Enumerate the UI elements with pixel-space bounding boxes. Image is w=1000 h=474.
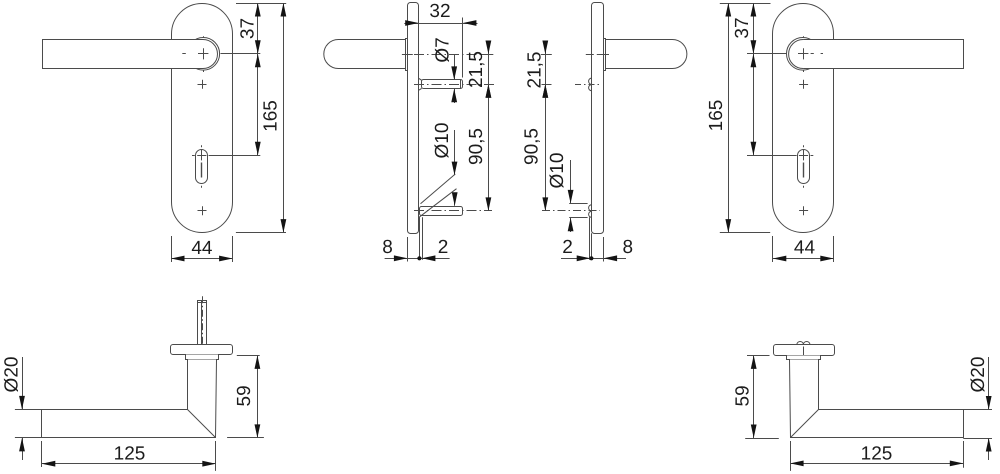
view5 dim line 125 xyxy=(42,461,216,467)
svg-text:8: 8 xyxy=(623,237,634,258)
view4 dim line 37 and keyhole segment xyxy=(751,3,757,155)
view2 label dia10 xyxy=(432,123,453,159)
view1 upper screw cross xyxy=(198,80,207,89)
view5 dim 59 extension lines xyxy=(227,356,264,438)
view3 dia10 leader and arrows xyxy=(568,160,574,232)
view6 dia20 leader and arrows xyxy=(986,357,992,460)
svg-text:Ø20: Ø20 xyxy=(968,357,989,393)
view4 dim line 165 xyxy=(725,3,731,233)
view5 dim line 59 xyxy=(255,355,261,438)
view5 rose slab xyxy=(171,345,233,355)
view2 lower stud (M10 socket) xyxy=(420,207,463,216)
svg-text:44: 44 xyxy=(794,237,816,258)
view3 dia10 hole edge lines xyxy=(569,204,587,218)
view2 2mm sub-plate lines xyxy=(420,217,423,259)
view3 dim line 2 and 8 xyxy=(561,255,626,261)
view4 backplate outline xyxy=(773,4,834,233)
view5 dia20 extension lines xyxy=(15,410,42,438)
view3 grip junction centerline dash xyxy=(598,54,609,56)
view4 upper screw cross xyxy=(799,80,808,89)
view4 keyhole slot xyxy=(798,150,810,184)
view3 label 8 xyxy=(623,237,634,258)
view4 lever end cap arc xyxy=(789,40,803,69)
view3 lower screw head bumps xyxy=(589,205,592,218)
svg-text:59: 59 xyxy=(732,385,753,406)
view2 screw diagonal upper xyxy=(421,174,456,204)
view2 label 90,5 xyxy=(466,128,487,165)
svg-text:2: 2 xyxy=(562,237,573,258)
view2 label 32 xyxy=(429,1,450,22)
view1 extension line plate bottom xyxy=(236,232,286,234)
view4 handle axis center mark xyxy=(798,48,808,59)
svg-text:165: 165 xyxy=(261,100,282,132)
view2 dim 21,5 extension at axis xyxy=(481,54,494,56)
svg-text:125: 125 xyxy=(861,444,893,465)
svg-text:Ø10: Ø10 xyxy=(547,153,568,189)
view4 extension line keyhole axis xyxy=(747,155,797,157)
view1 dim line 37 and keyhole segment xyxy=(255,3,261,155)
view6 center mark xyxy=(803,347,805,368)
view6 dia20 extension lines xyxy=(963,410,992,439)
view5 handle neck and grip outline xyxy=(42,360,217,438)
view1 handle axis center mark xyxy=(198,48,208,59)
view4 dim 44 extension lines xyxy=(773,236,834,262)
view1 rose outer circle xyxy=(187,38,220,71)
view4 label 37 xyxy=(732,17,753,38)
view1 dim line 165 xyxy=(281,3,287,233)
svg-text:165: 165 xyxy=(706,100,727,132)
view3 upper fixing centerline xyxy=(542,84,601,86)
view1 extension line handle axis xyxy=(221,53,261,55)
view4 dim line 44 xyxy=(773,256,834,262)
view6 screw head bumps xyxy=(797,341,810,344)
view2 screw diagonal lower xyxy=(419,189,457,218)
view6 miter joint line xyxy=(791,410,819,438)
svg-text:Ø20: Ø20 xyxy=(1,357,22,393)
view1 label 165 xyxy=(261,100,282,132)
view5 spindle shaft xyxy=(198,301,207,345)
view4 rose outer circle xyxy=(787,38,820,71)
svg-text:32: 32 xyxy=(429,1,450,22)
view6 dim 59 extension lines xyxy=(745,356,779,439)
view2 dim line 90,5 xyxy=(486,84,492,211)
view5 bearing band xyxy=(186,355,219,360)
view1 keyhole slot xyxy=(196,150,208,184)
view4 keyhole inner slot line xyxy=(803,163,805,178)
view5 spindle centerline xyxy=(202,296,204,366)
view6 bearing band xyxy=(787,356,821,360)
view5 label dia20 xyxy=(1,357,22,393)
view6 label 59 xyxy=(732,385,753,406)
view4 extension line plate bottom xyxy=(720,232,770,234)
svg-text:125: 125 xyxy=(114,444,146,465)
view6 rose slab xyxy=(774,345,835,356)
svg-text:37: 37 xyxy=(732,17,753,38)
view6 label 125 xyxy=(861,444,893,465)
view1 dim 44 extension lines xyxy=(172,236,233,262)
view2 dia7 leader and arrows xyxy=(451,55,457,103)
view5 dia20 leader and arrows xyxy=(19,357,25,460)
view3 dim line 90,5 xyxy=(542,84,548,211)
view4 keyhole center cross xyxy=(799,150,808,160)
view2 upper stud centerline xyxy=(414,84,495,86)
view2 upper stud (M6 bolt) xyxy=(419,78,463,90)
view2 grip side (stadium) xyxy=(324,40,406,69)
view5 label 59 xyxy=(234,385,255,406)
svg-text:Ø10: Ø10 xyxy=(432,123,453,159)
view1 lever bar xyxy=(43,40,204,69)
view2 label 8 xyxy=(382,237,393,258)
svg-text:21,5: 21,5 xyxy=(525,52,546,89)
view1 keyhole centerline dashes xyxy=(192,145,202,187)
view2 label 2 xyxy=(438,237,449,258)
view6 dim line 59 xyxy=(751,355,757,438)
view1 lower screw cross xyxy=(198,206,207,215)
view3 label 2 xyxy=(562,237,573,258)
view2 grip junction centerline dash xyxy=(402,54,413,56)
view2 grip collar xyxy=(406,39,408,71)
view3 label dia10 xyxy=(547,153,568,189)
view2 dim line 32 xyxy=(404,20,477,26)
view6 dim 125 extension lines xyxy=(791,441,964,471)
svg-text:90,5: 90,5 xyxy=(522,128,543,165)
view3 grip side (stadium) xyxy=(606,40,687,69)
view3 handle axis centerline xyxy=(586,54,600,56)
view1 extension line keyhole axis xyxy=(209,155,261,157)
view6 label dia20 xyxy=(968,357,989,393)
svg-text:2: 2 xyxy=(438,237,449,258)
view1 backplate outline (rounded plate 44x165) xyxy=(172,4,233,233)
view3 upper screw head bumps xyxy=(589,78,592,91)
svg-text:37: 37 xyxy=(237,18,258,39)
view2 dia10 leader and arrows xyxy=(452,130,458,206)
view2 dim 32 extension line right xyxy=(462,18,464,78)
view6 handle neck and grip outline xyxy=(790,360,964,438)
view3 grip collar xyxy=(604,39,606,71)
view2 bottom extension line xyxy=(407,237,409,262)
view4 keyhole centerline dashes xyxy=(804,145,814,187)
view2 handle axis centerline xyxy=(414,54,493,56)
view3 label 90,5 xyxy=(522,128,543,165)
view3 bottom extension line xyxy=(603,237,605,262)
view3 plate side outline xyxy=(592,3,604,234)
view5 label 125 xyxy=(114,444,146,465)
view4 lower screw cross xyxy=(799,206,808,215)
view5 miter joint line xyxy=(188,410,216,438)
svg-text:90,5: 90,5 xyxy=(466,128,487,165)
view4 label 165 xyxy=(706,100,727,132)
view3 lower fixing centerline xyxy=(542,210,600,212)
view3 extension at handle axis xyxy=(541,54,552,56)
view1 label 44 xyxy=(191,238,213,259)
view4 lever bar xyxy=(803,40,963,69)
view1 extension line plate top xyxy=(236,3,286,5)
view5 dim 125 extension lines xyxy=(42,441,216,471)
view3 2mm sub-plate lines xyxy=(590,217,592,259)
view1 lever end cap arc xyxy=(203,40,217,69)
view1 handle axis centerline dashes xyxy=(182,36,203,72)
svg-text:8: 8 xyxy=(382,237,393,258)
view1 label 37 xyxy=(237,18,258,39)
view2 dim line 21,5 xyxy=(486,41,492,98)
view4 extension line plate top xyxy=(720,3,771,5)
view2 lower stud centerline xyxy=(414,210,492,212)
view2 label dia7 xyxy=(432,37,453,62)
view4 extension line handle axis xyxy=(747,53,787,55)
svg-text:59: 59 xyxy=(234,385,255,406)
view4 handle axis centerline dashes xyxy=(804,36,824,72)
svg-text:21,5: 21,5 xyxy=(466,51,487,88)
svg-text:44: 44 xyxy=(191,238,213,259)
svg-text:Ø7: Ø7 xyxy=(432,37,453,62)
view6 dim line 125 xyxy=(790,461,963,467)
view1 keyhole center cross xyxy=(197,150,206,160)
view2 label 21,5 xyxy=(466,51,487,88)
view2 plate side outline xyxy=(408,3,419,234)
view4 label 44 xyxy=(794,237,816,258)
view1 dim line 44 xyxy=(171,256,233,262)
view1 keyhole inner slot line xyxy=(201,163,203,178)
view3 label 21,5 xyxy=(525,52,546,89)
view3 dim line 21,5 xyxy=(542,41,548,98)
view2 dim line 8 and 2 xyxy=(385,255,450,261)
